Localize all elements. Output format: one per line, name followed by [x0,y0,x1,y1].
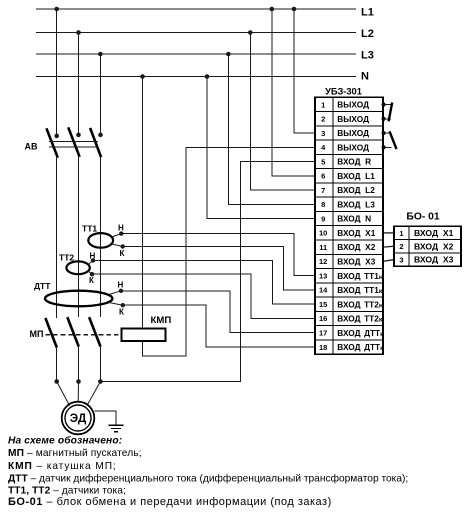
wire motor lead B [77,382,79,402]
svg-text:11: 11 [319,243,327,252]
svg-text:ВХОД X2: ВХОД X2 [337,242,375,252]
wire phase B vertical [78,157,80,317]
node ДТТ К [119,303,125,317]
wire pin 4 to КМП coil [143,147,316,356]
contactor МП pole 2 [67,317,78,346]
contactor МП pole 3 [89,317,100,346]
node ТТ2 К [89,272,94,285]
svg-text:ВХОД ДТТк: ВХОД ДТТк [337,342,384,352]
wire ТТ1н to pin 13 [121,234,315,276]
wire ДТТк to pin 18 [123,305,315,347]
wire pin 5 R to motor phase [100,162,315,382]
svg-text:ВЫХОД: ВЫХОД [337,114,369,124]
svg-text:14: 14 [319,286,328,295]
circuit breaker АВ pole 3 [90,128,103,157]
power rail L2 [36,32,356,34]
svg-text:ВХОД N: ВХОД N [337,214,371,224]
wire motor lead A [57,382,70,406]
wire L1 phase drop [56,9,58,136]
svg-text:ТТ1, ТТ2 – датчики тока;: ТТ1, ТТ2 – датчики тока; [8,485,126,496]
wire phase C vertical [99,157,101,317]
differential current transformer ДТТ [34,281,123,306]
svg-text:ДТТ: ДТТ [34,281,51,291]
svg-text:N: N [361,70,369,82]
power rail N [36,76,356,78]
svg-text:ВХОД ДТТн: ВХОД ДТТн [337,328,384,338]
node L3-t8 [226,52,231,57]
svg-text:5: 5 [321,157,325,166]
pin 11 ВХОД X2 [319,242,375,252]
current transformer ТТ1 [82,224,123,248]
svg-text:7: 7 [321,186,325,195]
svg-text:3: 3 [399,255,403,264]
node L3-AB [98,52,103,57]
relay contact pins 1-2 [382,102,393,121]
svg-text:2: 2 [321,115,325,124]
svg-text:Н: Н [90,252,96,261]
node L1-t3 [292,7,297,12]
svg-text:ВХОД L1: ВХОД L1 [337,171,375,181]
svg-text:ВЫХОД: ВЫХОД [337,142,369,152]
svg-text:БО-01 – блок обмена и передачи: БО-01 – блок обмена и передачи информаци… [8,496,332,508]
power rail L3 [36,53,356,55]
pin 9 ВХОД N [321,214,371,224]
svg-text:ВХОД X2: ВХОД X2 [414,241,454,251]
svg-text:ВХОД X1: ВХОД X1 [414,228,454,238]
svg-text:17: 17 [319,328,327,337]
node ТТ1 К [120,244,125,258]
svg-text:ВХОД L3: ВХОД L3 [337,199,375,209]
wire motor lead C [87,382,100,406]
pin 8 ВХОД L3 [321,199,375,209]
svg-text:3: 3 [321,129,325,138]
svg-text:ВХОД X3: ВХОД X3 [337,256,375,266]
node ТТ1 Н [118,224,124,236]
svg-text:ВХОД R: ВХОД R [337,157,371,167]
wire ДТТн to pin 17 [121,291,315,333]
motor ЭД [62,402,95,435]
svg-text:К: К [89,276,94,285]
svg-text:КМП: КМП [151,315,172,326]
wire L2 to pin 7 [250,33,315,191]
node L1-t6 [270,7,275,12]
svg-text:15: 15 [319,300,327,309]
svg-text:ДТТ – датчик дифференциального: ДТТ – датчик дифференциального тока (диф… [8,473,408,485]
pin 1 ВЫХОД [321,100,369,110]
wire phase B to motor [78,347,80,382]
pin 5 ВХОД R [321,157,371,167]
svg-text:АВ: АВ [25,142,38,152]
МП mechanical linkage dashed [46,334,122,336]
svg-text:К: К [119,308,124,317]
circuit breaker АВ pole 2 [68,127,81,157]
pin 15 ВХОД ТТ2н [319,299,383,309]
svg-text:9: 9 [321,214,325,223]
wire motor to ground [95,411,117,425]
svg-text:ВЫХОД: ВЫХОД [337,128,369,138]
node ТТ2 Н [90,252,96,263]
contactor МП pole 1 [45,318,56,348]
wire L3 to pin 8 [228,54,315,204]
svg-text:КМП – катушка МП;: КМП – катушка МП; [8,461,117,472]
svg-text:УБЗ-301: УБЗ-301 [325,87,362,97]
pin 12 ВХОД X3 [319,256,376,266]
relay unit УБЗ-301 terminal block [315,97,383,354]
svg-text:ВХОД L2: ВХОД L2 [337,185,375,195]
svg-text:L3: L3 [361,50,374,62]
pin 16 ВХОД ТТ2к [319,314,383,324]
node N-KMP [140,74,145,79]
svg-text:ТТ2: ТТ2 [59,252,74,262]
БО-01 pin 1 ВХОД X1 [399,228,453,238]
svg-text:16: 16 [319,314,327,323]
wire ТТ2н to pin 15 [93,261,315,305]
БО-01 pin 3 ВХОД X3 [399,255,453,265]
svg-text:БО- 01: БО- 01 [406,212,439,223]
svg-text:10: 10 [319,229,327,238]
svg-text:К: К [120,249,125,258]
wire L3 phase drop [99,54,101,135]
wire L1 to pin 6 [272,9,315,176]
svg-text:ВХОД ТТ2н: ВХОД ТТ2н [337,299,383,309]
svg-text:ВЫХОД: ВЫХОД [337,100,369,110]
power rail L1 [36,8,356,10]
node L1-AB [54,7,59,12]
pin 13 ВХОД ТТ1н [319,271,383,281]
node motor C [98,379,103,384]
svg-text:L1: L1 [361,7,374,19]
svg-text:L2: L2 [361,28,374,40]
svg-text:ЭД: ЭД [70,411,87,425]
coil КМП [122,315,172,341]
svg-text:ВХОД X1: ВХОД X1 [337,228,375,238]
svg-text:ВХОД ТТ1н: ВХОД ТТ1н [337,271,383,281]
relay contact pins 3-4 [382,131,397,149]
svg-text:12: 12 [319,257,327,266]
wire phase A vertical [56,158,58,318]
svg-text:13: 13 [319,271,327,280]
svg-text:ТТ1: ТТ1 [82,224,97,234]
pin 14 ВХОД ТТ1к [319,285,383,295]
pin 18 ВХОД ДТТк [319,342,384,352]
svg-text:1: 1 [321,100,325,109]
pin 2 ВЫХОД [321,114,369,124]
pin 6 ВХОД L1 [321,171,375,181]
svg-text:ВХОД ТТ1к: ВХОД ТТ1к [337,285,383,295]
pin 4 ВЫХОД [321,142,369,152]
svg-text:8: 8 [321,200,325,209]
БО-01 pin 2 ВХОД X2 [399,241,453,251]
svg-text:МП: МП [30,329,44,339]
node N-t9 [205,74,210,79]
svg-text:ВХОД X3: ВХОД X3 [414,255,454,265]
svg-text:2: 2 [399,242,403,251]
pin 3 ВЫХОД [321,128,369,138]
wire N to pin 9 [207,77,315,219]
wire pin 12 to БО-01 pin 3 [383,260,394,262]
node motor A [54,379,59,384]
svg-text:ВХОД ТТ2к: ВХОД ТТ2к [337,314,383,324]
pin 10 ВХОД X1 [319,228,376,238]
svg-text:6: 6 [321,172,325,181]
svg-text:МП – магнитный пускатель;: МП – магнитный пускатель; [8,448,142,459]
wire pin 10 to БО-01 pin 1 [383,232,394,234]
svg-text:Н: Н [118,281,124,290]
node motor B [76,379,81,384]
wire N to KMP coil [142,77,144,329]
current transformer ТТ2 [59,252,93,274]
circuit breaker АВ pole 1 [46,128,59,157]
wire L1 to pin 3 [294,9,315,133]
svg-text:На схеме обозначено:: На схеме обозначено: [8,435,122,447]
node L2-t7 [248,30,253,35]
svg-text:18: 18 [319,343,327,352]
wire phase A to motor [56,348,58,382]
wire L2 phase drop [78,33,80,135]
node L2-AB [76,30,81,35]
node ДТТ Н [118,281,124,293]
interface unit БО-01 terminal block [394,226,461,266]
svg-text:Н: Н [118,224,124,233]
svg-text:1: 1 [399,229,403,238]
wire ТТ1к to pin 14 [123,247,315,290]
ground [109,425,124,431]
wire phase C to motor [99,347,101,382]
pin 7 ВХОД L2 [321,185,375,195]
wire ТТ2к to pin 16 [92,274,315,318]
wire pin 11 to БО-01 pin 2 [383,245,394,248]
АВ mechanical linkage [49,142,98,148]
pin 17 ВХОД ДТТн [319,328,384,338]
